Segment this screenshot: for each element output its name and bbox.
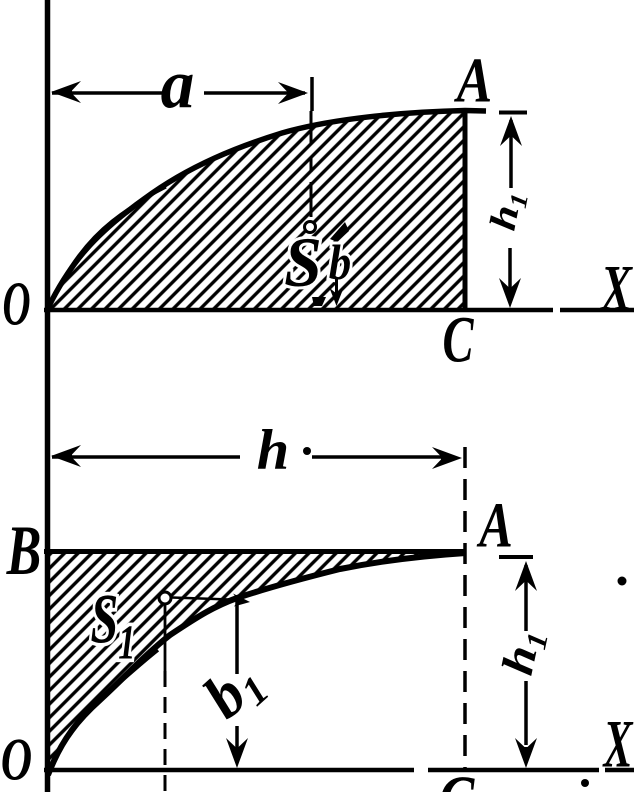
svg-text:a: a xyxy=(161,46,195,123)
dimension h: right arrowhead xyxy=(432,447,462,469)
line B-A xyxy=(44,549,466,554)
svg-text:O: O xyxy=(1,727,32,792)
svg-text:C: C xyxy=(442,304,474,377)
b1 down arrow xyxy=(235,726,239,748)
right edge AC xyxy=(463,111,468,310)
dimension h: arrow line xyxy=(52,455,240,459)
dimension h: left arrowhead xyxy=(51,445,81,467)
h1 dimension (bottom): lower shaft + down arrow xyxy=(524,681,528,745)
hatched area S under curve xyxy=(49,111,465,309)
svg-text:O: O xyxy=(2,270,30,338)
x axis (bottom baseline) xyxy=(44,768,414,773)
centroid circle (top) xyxy=(305,222,316,233)
h1 dimension (top): lower shaft + down arrow xyxy=(508,248,512,300)
h1 dimension (top): up arrow xyxy=(500,116,522,146)
dot below baseline xyxy=(581,779,589,787)
dimension a: right arrowhead xyxy=(278,82,308,104)
svg-text:h: h xyxy=(257,420,289,482)
b1 dimension line xyxy=(235,601,239,674)
h1 dimension (top): top tick xyxy=(499,111,527,115)
curve O to A (bottom) xyxy=(48,553,466,775)
dimension a: right tick xyxy=(310,77,314,111)
svg-text:C: C xyxy=(439,763,476,792)
dimension a: left arrowhead xyxy=(51,81,81,103)
svg-text:X: X xyxy=(602,708,633,782)
centroid circle (bottom) xyxy=(159,592,171,604)
h1 dimension (bottom): up arrow xyxy=(515,561,537,591)
svg-text:A: A xyxy=(476,488,513,561)
dashed vertical below xyxy=(164,671,167,792)
line below circle through curve xyxy=(164,604,167,671)
b down arrow (top) xyxy=(335,279,338,294)
small blob on baseline xyxy=(312,297,326,306)
curve O to A (top) xyxy=(48,111,486,309)
h1 dimension (bottom): top tick xyxy=(499,555,533,559)
dot after h xyxy=(303,447,311,455)
dimension a: arrow line xyxy=(52,91,162,95)
svg-text:S: S xyxy=(284,223,322,302)
small arrow blob near b xyxy=(330,222,349,242)
dashed vertical at A (bottom) xyxy=(463,447,467,770)
curve thickening near origin (top) xyxy=(49,187,166,306)
svg-text:b: b xyxy=(329,236,351,291)
y axis (common vertical axis) xyxy=(45,0,51,792)
x axis (top baseline) xyxy=(44,308,553,313)
leader from circle to b1 line xyxy=(172,598,244,601)
leader arrowhead at curve xyxy=(233,594,250,607)
svg-text:B: B xyxy=(6,510,42,590)
curve thickening near origin (bottom) xyxy=(50,650,158,772)
centroid dashed line (top) xyxy=(310,111,313,143)
svg-text:X: X xyxy=(599,252,633,325)
svg-text:A: A xyxy=(453,45,492,115)
small dot right xyxy=(618,577,627,586)
hatched area S1 between line BA and curve xyxy=(48,552,466,774)
